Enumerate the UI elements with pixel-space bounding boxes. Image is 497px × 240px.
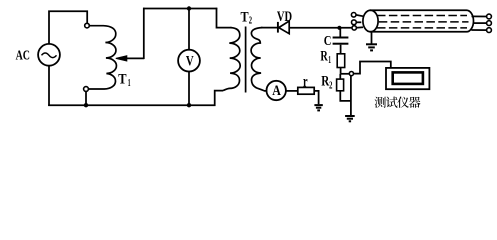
tube body bbox=[370, 10, 474, 32]
terminal T1 bottom bbox=[84, 87, 89, 92]
label ceshiyiqi bbox=[375, 97, 421, 108]
terminal T1 top bbox=[85, 23, 90, 28]
label r bbox=[303, 73, 308, 90]
transformer T2 primary winding bbox=[223, 28, 240, 91]
AC source bbox=[38, 44, 60, 66]
wire step to T2 primary bottom bbox=[215, 91, 223, 106]
wire diode to tube node bbox=[289, 27, 352, 29]
svg-text:T: T bbox=[241, 10, 249, 26]
wire C to R1 bbox=[340, 45, 342, 54]
wire secondary to diode bbox=[261, 27, 277, 29]
tube left terminal 3 bbox=[352, 26, 356, 30]
wire AC bottom bbox=[48, 66, 50, 106]
tube dashed line 2 bbox=[379, 21, 469, 23]
wire wiper to top bbox=[143, 8, 145, 59]
tube right terminal 2 bbox=[487, 21, 492, 26]
resistor r bbox=[298, 87, 314, 94]
svg-text:2: 2 bbox=[329, 81, 332, 92]
svg-text:A: A bbox=[272, 83, 281, 99]
svg-text:T: T bbox=[118, 72, 126, 88]
tube right terminal 1 bbox=[487, 14, 492, 19]
tube right terminal 3 bbox=[487, 28, 492, 33]
wire r to ground bbox=[314, 91, 318, 104]
wire node to ground bbox=[350, 76, 352, 116]
label R1 bbox=[320, 48, 331, 66]
junction dot voltmeter bus bbox=[187, 103, 191, 107]
AC source label bbox=[16, 49, 30, 64]
junction dot T1 bus bbox=[84, 103, 88, 107]
ammeter A bbox=[267, 81, 286, 100]
wire R1 to node bbox=[340, 68, 342, 74]
voltmeter lead bottom bbox=[188, 72, 190, 106]
T2 core bbox=[245, 27, 247, 93]
voltmeter lead top bbox=[188, 9, 190, 50]
svg-text:1: 1 bbox=[128, 78, 131, 89]
voltmeter V bbox=[178, 50, 200, 72]
resistor R1 bbox=[337, 54, 345, 68]
T1 wiper arrow bbox=[116, 56, 144, 61]
svg-text:V: V bbox=[186, 54, 194, 70]
junction dot voltmeter top bbox=[187, 6, 191, 10]
wire node to instrument bbox=[354, 62, 391, 74]
svg-text:2: 2 bbox=[249, 16, 252, 27]
label R2 bbox=[321, 74, 332, 92]
label VD bbox=[277, 9, 292, 25]
bottom bus bbox=[48, 104, 215, 106]
transformer T2 secondary winding bbox=[251, 28, 266, 91]
tube dashed line 1 bbox=[377, 15, 467, 17]
wire A to r bbox=[286, 90, 298, 92]
node wire horizontal bbox=[341, 73, 350, 75]
top wire middle bbox=[143, 8, 217, 10]
tube leads right bbox=[471, 16, 486, 30]
svg-text:1: 1 bbox=[328, 55, 331, 66]
svg-text:AC: AC bbox=[16, 49, 30, 64]
wire AC top bbox=[49, 11, 87, 44]
tube left terminal 1 bbox=[351, 13, 356, 18]
label C bbox=[324, 34, 332, 49]
terminal node bbox=[349, 72, 353, 76]
tube dashed line 3 bbox=[377, 27, 467, 29]
wire step to T2 primary top bbox=[217, 8, 232, 28]
junction dot above C bbox=[337, 26, 341, 30]
capacitor C bbox=[333, 28, 349, 44]
ground near r bbox=[314, 105, 322, 110]
tube ground bbox=[366, 32, 377, 51]
svg-text:C: C bbox=[324, 34, 332, 49]
wire R2 to ground stem bbox=[340, 91, 351, 101]
label T2 bbox=[241, 10, 253, 27]
label T1 bbox=[118, 72, 130, 89]
tube leads left bbox=[356, 15, 364, 28]
wire T1 bottom to bus bbox=[85, 91, 87, 105]
diode VD bbox=[278, 21, 289, 34]
resistor R2 bbox=[337, 74, 344, 91]
ground under R2 bbox=[345, 116, 355, 121]
svg-text:R: R bbox=[320, 48, 328, 64]
instrument box bbox=[386, 68, 429, 89]
tube left terminal 2 bbox=[352, 20, 357, 25]
tube left cap ellipse bbox=[363, 10, 378, 32]
autotransformer T1 winding bbox=[89, 26, 117, 89]
